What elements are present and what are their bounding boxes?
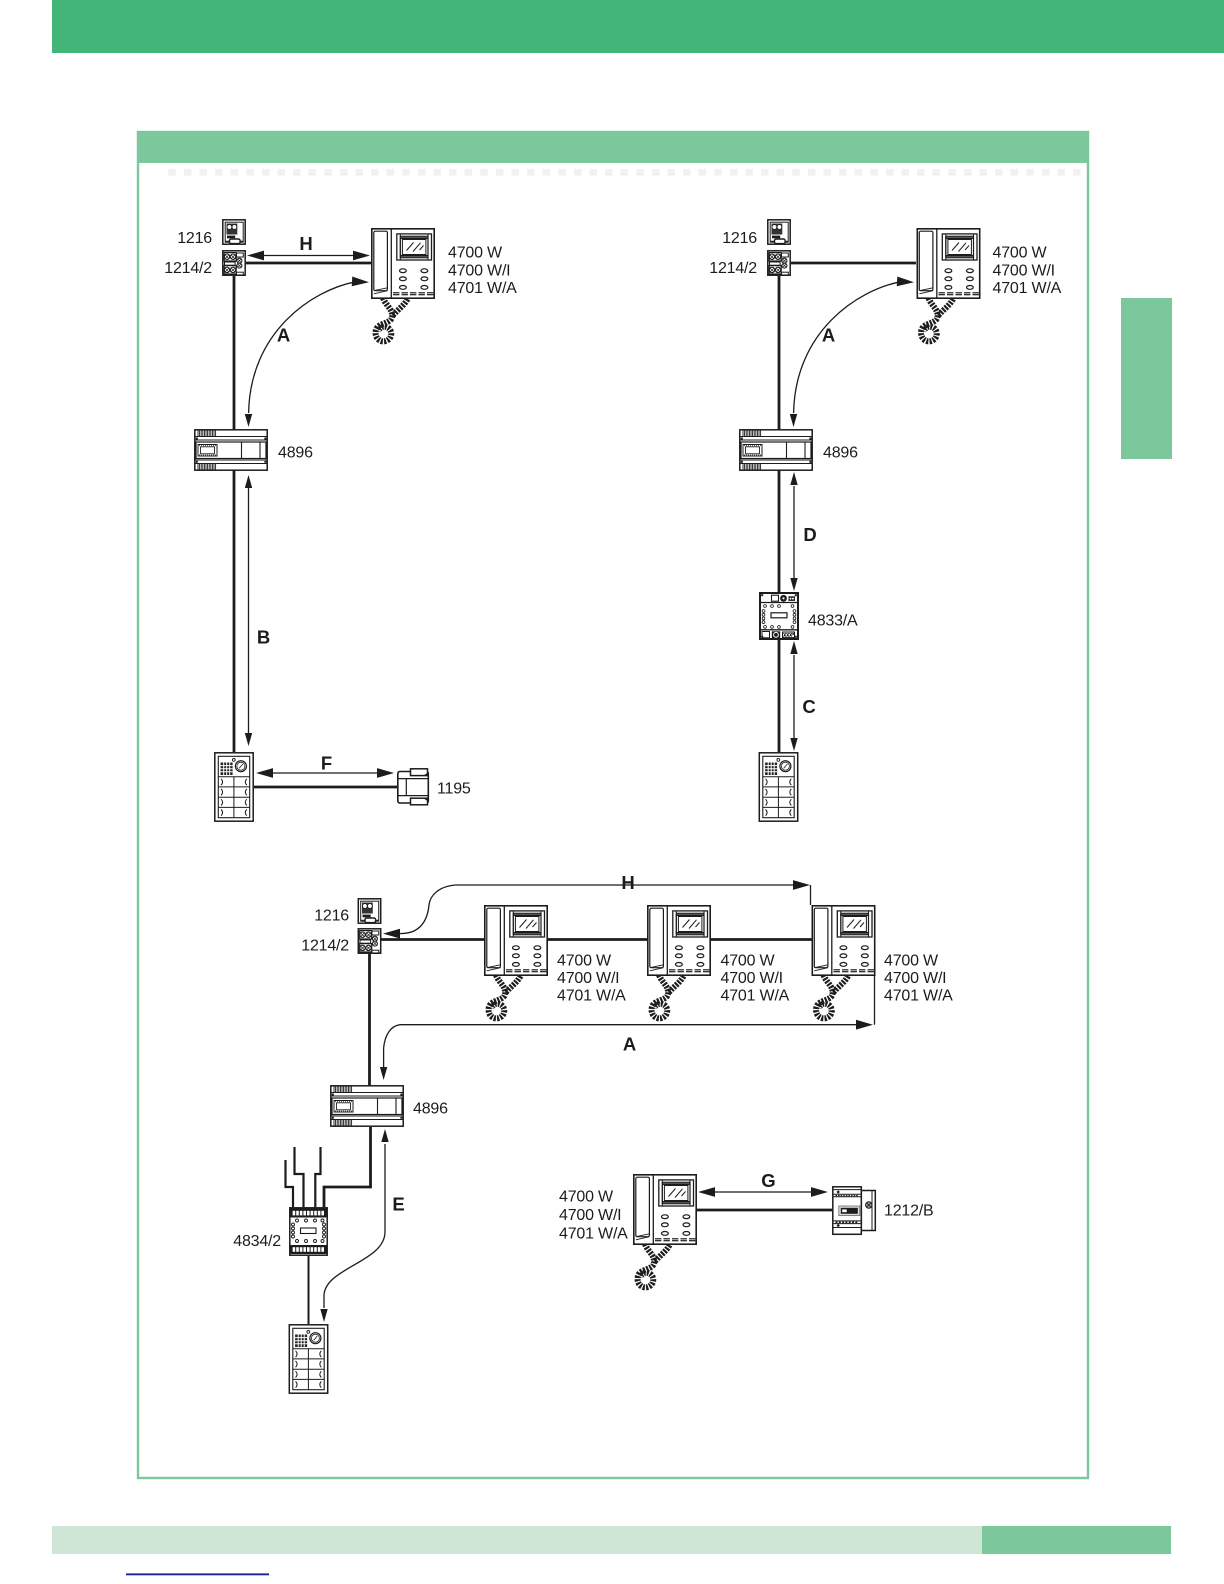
svg-text:1216: 1216 (314, 908, 349, 925)
svg-text:4700 W: 4700 W (448, 245, 503, 262)
svg-text:4700 W/I: 4700 W/I (884, 970, 946, 987)
svg-text:4700 W/I: 4700 W/I (559, 1207, 621, 1224)
svg-text:1195: 1195 (437, 781, 471, 798)
svg-text:E: E (392, 1194, 404, 1215)
svg-text:4700 W: 4700 W (557, 953, 612, 970)
svg-text:D: D (803, 524, 816, 545)
svg-text:H: H (621, 872, 634, 893)
svg-text:4896: 4896 (413, 1101, 448, 1118)
svg-text:4701 W/A: 4701 W/A (559, 1226, 628, 1243)
svg-text:4700 W/I: 4700 W/I (993, 263, 1055, 280)
svg-text:4701 W/A: 4701 W/A (721, 988, 790, 1005)
svg-text:4700 W: 4700 W (993, 245, 1048, 262)
svg-text:4700 W: 4700 W (559, 1189, 614, 1206)
svg-text:4700 W: 4700 W (721, 953, 776, 970)
svg-text:H: H (299, 233, 312, 254)
svg-text:4701 W/A: 4701 W/A (557, 988, 626, 1005)
svg-text:4896: 4896 (278, 445, 313, 462)
svg-text:A: A (822, 325, 835, 346)
svg-text:4896: 4896 (823, 445, 858, 462)
svg-text:1214/2: 1214/2 (301, 938, 349, 955)
svg-text:1212/B: 1212/B (884, 1203, 934, 1220)
svg-text:F: F (321, 753, 332, 774)
svg-text:B: B (257, 627, 270, 648)
svg-text:4701 W/A: 4701 W/A (448, 280, 517, 297)
svg-text:4700 W: 4700 W (884, 953, 939, 970)
svg-text:4701 W/A: 4701 W/A (884, 988, 953, 1005)
svg-text:C: C (802, 696, 815, 717)
svg-text:4833/A: 4833/A (808, 613, 858, 630)
svg-text:A: A (623, 1034, 636, 1055)
svg-text:1216: 1216 (177, 230, 212, 247)
svg-text:G: G (761, 1170, 775, 1191)
svg-text:1214/2: 1214/2 (164, 260, 212, 277)
svg-text:4834/2: 4834/2 (233, 1233, 281, 1250)
svg-text:A: A (277, 325, 290, 346)
svg-text:4701 W/A: 4701 W/A (993, 280, 1062, 297)
svg-text:4700 W/I: 4700 W/I (557, 970, 619, 987)
svg-text:1214/2: 1214/2 (709, 260, 757, 277)
svg-text:1216: 1216 (722, 230, 757, 247)
svg-text:4700 W/I: 4700 W/I (448, 263, 510, 280)
svg-text:4700 W/I: 4700 W/I (721, 970, 783, 987)
